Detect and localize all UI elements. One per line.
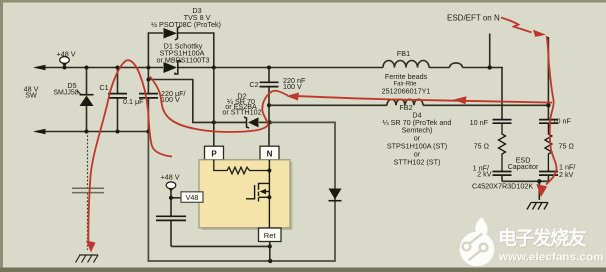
capacitor parasitic [72,188,104,192]
svg-text:C2: C2 [249,80,258,89]
svg-text:10 nF: 10 nF [470,118,489,127]
svg-text:ESD/EFT on N: ESD/EFT on N [447,14,500,23]
wire ESD branch L side [547,37,549,119]
pin box Ret [259,228,282,242]
svg-text:Ferrite beads: Ferrite beads [385,72,428,81]
wire N line upper [268,68,270,147]
diode D1 Schottky [164,61,216,74]
wire ESD branch N side [501,68,503,120]
red arrow to chassis left [86,241,96,253]
svg-text:C4520X7R3D102K: C4520X7R3D102K [472,182,533,191]
dashed parasitic branch wire [87,132,89,251]
node ESD ground junction [537,179,541,183]
node V48 tap junction [169,196,173,200]
diode D5 TVS branch wire [86,68,88,132]
svg-text:2 kV: 2 kV [559,170,574,179]
label 220uF 100V [161,89,186,104]
svg-text:½ PSOT08C (ProTek): ½ PSOT08C (ProTek) [151,20,221,29]
wire ESD ground join [502,175,548,200]
resistor 75ohm L side [545,123,552,171]
capacitor V48 branch [156,216,186,220]
svg-text:2512066017Y1: 2512066017Y1 [382,87,431,96]
svg-text:75 Ω: 75 Ω [559,142,575,151]
watermark logo [460,218,495,267]
node 48V SW input arrow top [33,65,46,71]
node source junction [267,195,271,199]
red arrow to chassis right [536,184,547,197]
terminal +48V top [60,57,70,70]
wire top +48V rail [36,67,383,69]
label 1nF 2kV N side [473,164,492,179]
diode D3 TVS [164,27,181,41]
label D2 SR70 ES2BA STTH102 [222,92,261,117]
capacitor 1nF L side [539,172,558,176]
label 220nF 100V [283,76,306,91]
label D1 Schottky [157,42,210,65]
svg-text:75 Ω: 75 Ω [474,142,490,151]
capacitor 220uF [139,66,158,98]
wire V48 branch [171,190,270,246]
diode D3 parallel loop wire [148,33,163,68]
capacitor 220uF branch wire [147,68,149,132]
svg-text:Ret: Ret [264,231,277,240]
label 48V SW [24,85,39,100]
diode D4 [329,189,342,201]
transistor Q1 body arrow [260,189,267,195]
wire Ret to return [268,242,272,262]
resistor 75ohm N side [499,123,506,171]
red arrowhead mid FB2 [453,96,467,104]
svg-text:FB2: FB2 [399,103,412,112]
capacitor C2 [260,66,279,108]
wire D2 to N node [259,121,270,123]
svg-text:100 V: 100 V [283,82,302,91]
svg-text:+48 V: +48 V [57,50,76,59]
wire bottom return rail [36,131,148,133]
svg-text:电子发烧友: 电子发烧友 [498,227,587,250]
label D4 SR70 STPS1H100A STTH102 [383,111,452,167]
svg-text:SW: SW [25,91,37,100]
svg-text:100 V: 100 V [161,95,180,104]
svg-text:V48: V48 [186,193,199,202]
svg-text:10 nF: 10 nF [553,117,572,126]
svg-text:SMJJ58: SMJJ58 [53,90,78,97]
svg-text:P: P [211,150,217,159]
wire ESD stub on rail [488,34,492,70]
red arrowhead at D2 path [286,93,299,101]
label ferrite beads [382,72,431,96]
module yellow box [199,160,293,230]
label D3 TVS 8V PSOT08C [151,6,221,29]
red EFT bolt arrow [501,18,546,37]
box V48 [181,192,203,203]
diode D5 [77,66,94,134]
label ESD Capacitor [508,156,539,171]
transistor Q1 MOSFET [246,160,269,228]
diode D2 [212,117,272,128]
ground chassis left [76,255,99,263]
capacitor C1 branch wire [117,68,119,132]
capacitor C1 [108,66,127,134]
svg-text:or STTH102: or STTH102 [222,107,261,116]
node return rail end junction [146,130,150,134]
wire P line [213,68,215,147]
node resistor to N junction [267,169,271,173]
svg-text:N: N [267,150,273,159]
node FB2 to ESD branch junction [546,103,550,107]
label 1nF 2kV L side [559,163,575,180]
ground chassis right [527,203,548,210]
wire FB2 row [269,99,548,105]
capacitor 1nF N side [493,172,512,176]
svg-text:www.elecfans.com: www.elecfans.com [498,252,604,264]
node Ret to return junction [268,259,272,263]
red long arrow on N line [292,96,552,103]
svg-text:FB1: FB1 [397,49,410,58]
wire 48V node to D2 row [148,80,246,123]
capacitor 10nF L side [539,120,558,124]
svg-text:STTH102 (ST): STTH102 (ST) [394,158,441,167]
svg-text:Capacitor: Capacitor [508,162,539,171]
red surge path left loop [88,60,288,246]
svg-text:C1: C1 [99,83,108,92]
pin box N [260,146,279,160]
wire return loop left and bottom [148,122,335,261]
capacitor 10nF N side [493,120,512,124]
svg-text:+48 V: +48 V [161,173,180,182]
svg-text:or MBRS1100T3: or MBRS1100T3 [157,56,210,65]
red surge path right down [546,36,557,185]
pin box P [205,146,224,160]
wire FB1 segment and hop [383,61,503,68]
svg-text:2 kV: 2 kV [477,170,492,179]
terminal +48V module [166,182,176,192]
label D5 SMJJ58 [53,81,78,97]
resistor inside module [214,160,270,174]
node return rail arrow bottom [33,129,46,135]
